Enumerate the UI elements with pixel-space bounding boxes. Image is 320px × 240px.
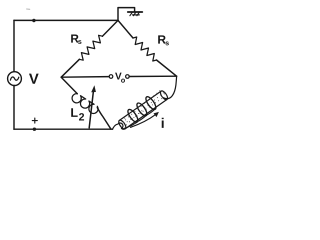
faint mark — [27, 8, 30, 10]
AC source V — [8, 72, 22, 86]
output terminal left — [109, 75, 113, 79]
solenoid core stipple — [120, 90, 164, 126]
solenoid far lead to right node — [164, 76, 177, 98]
svg-text:s: s — [78, 39, 82, 46]
svg-text:L: L — [70, 106, 78, 120]
winding connector arcs — [125, 122, 137, 128]
output terminal right — [126, 75, 130, 79]
resistor R2 (Rs upper-right) — [118, 20, 133, 38]
svg-text:s: s — [165, 40, 169, 47]
wire left node to output terminal — [61, 76, 109, 79]
svg-text:o: o — [121, 76, 126, 85]
solenoid winding ellipses — [126, 95, 158, 123]
wire output terminal to right node — [129, 75, 176, 77]
inductor L2 upper lead — [61, 77, 77, 94]
extra stipple — [124, 93, 165, 122]
solenoid tube body — [117, 90, 168, 130]
arrow through L2 — [89, 90, 93, 128]
wire left rail lower — [13, 86, 15, 130]
inductor L2 lower lead — [97, 108, 111, 130]
wire ground stub — [118, 8, 135, 21]
inductor L2 loops — [72, 94, 98, 114]
node + polarity mark bottom — [33, 128, 36, 131]
svg-text:V: V — [29, 72, 39, 88]
wire bottom rail — [14, 128, 113, 130]
current arrow i — [131, 114, 157, 128]
svg-text:2: 2 — [79, 112, 85, 124]
svg-text:i: i — [161, 115, 165, 131]
ground — [128, 12, 143, 16]
wire top rail — [14, 19, 118, 21]
node dot top — [32, 19, 35, 22]
solenoid near lead loops — [113, 123, 125, 129]
wire left rail upper — [13, 20, 15, 71]
resistor R1 (Rs upper-left) — [102, 20, 118, 36]
